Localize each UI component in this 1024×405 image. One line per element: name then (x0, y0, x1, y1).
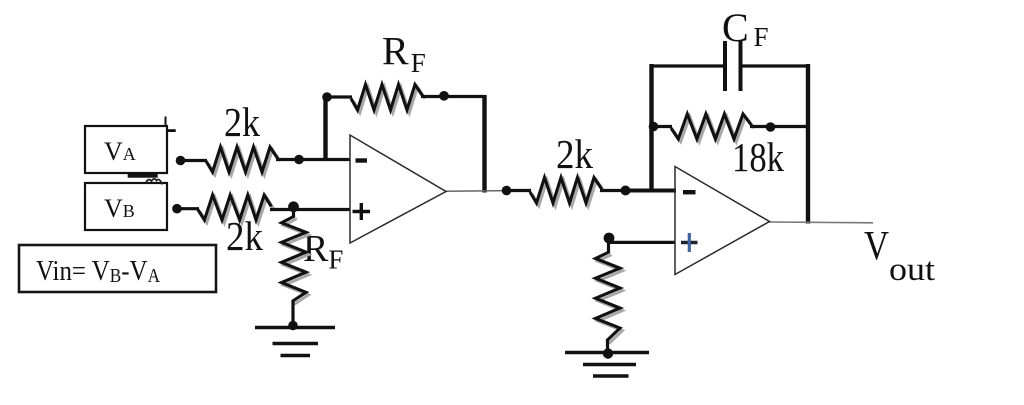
svg-text:F: F (754, 22, 769, 52)
svg-text:2k: 2k (224, 99, 260, 145)
svg-text:Vin= VB-VA: Vin= VB-VA (36, 255, 160, 287)
svg-text:out: out (889, 252, 935, 288)
svg-text:V: V (864, 222, 889, 268)
svg-text:2k: 2k (556, 131, 593, 177)
svg-text:18k: 18k (732, 134, 784, 180)
